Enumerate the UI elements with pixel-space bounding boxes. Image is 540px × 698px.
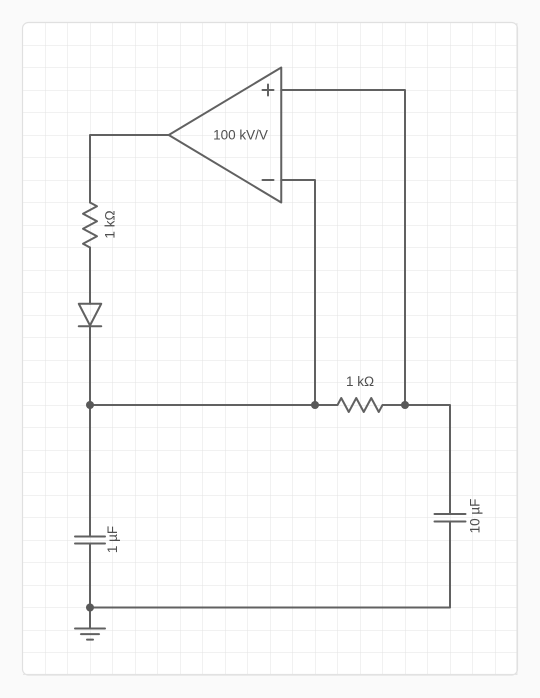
label: C1 value 1 µF	[105, 526, 120, 553]
wire: node C to capacitor C2	[405, 405, 450, 514]
svg-text:100 kV/V: 100 kV/V	[213, 128, 268, 143]
wire: op-amp output to R1 top	[90, 135, 169, 203]
diode D1	[79, 304, 102, 327]
label: R2 value 1 kΩ	[346, 374, 374, 389]
resistor R1	[83, 203, 97, 248]
label: R1 value 1 kΩ	[103, 210, 118, 238]
label: op-amp gain 100 kV/V	[213, 128, 268, 143]
svg-text:1 kΩ: 1 kΩ	[103, 210, 118, 238]
op-amp U1	[169, 68, 282, 203]
resistor R2	[315, 398, 405, 412]
wire: C1 to node D	[89, 544, 91, 608]
svg-text:1 kΩ: 1 kΩ	[346, 374, 374, 389]
capacitor C1	[75, 537, 105, 544]
capacitor C2	[435, 514, 466, 522]
wire: R1 to diode D1	[89, 248, 91, 304]
wire: op-amp - input to node B	[281, 180, 315, 405]
node B	[311, 401, 319, 409]
ground	[75, 608, 105, 640]
node C	[401, 401, 409, 409]
label: C2 value 10 µF	[468, 499, 483, 534]
svg-text:10 µF: 10 µF	[468, 499, 483, 534]
wire: node A to node B	[90, 404, 315, 406]
wire: op-amp + input to node C	[281, 90, 405, 405]
node A	[86, 401, 94, 409]
node D	[86, 604, 94, 612]
wire: C2 to bottom rail	[90, 522, 450, 608]
wire: node A to capacitor C1	[89, 405, 91, 537]
svg-text:1 µF: 1 µF	[105, 526, 120, 553]
wire: D1 to node A	[89, 326, 91, 405]
